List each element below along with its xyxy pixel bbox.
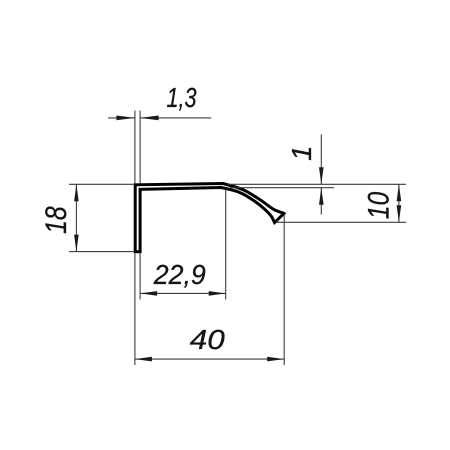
- extension line right: [283, 215, 285, 365]
- svg-text:10: 10: [363, 191, 396, 219]
- arrow pointing right: [116, 116, 134, 121]
- extension line right: [225, 189, 227, 300]
- arrow up: [74, 184, 79, 201]
- dimension 18 (leg height, left): [40, 184, 133, 251]
- arrow down: [397, 205, 402, 222]
- dimension line lower: [320, 188, 322, 215]
- extension line lower: [230, 187, 334, 189]
- extension line left: [139, 254, 141, 300]
- svg-text:22,9: 22,9: [153, 259, 206, 290]
- arrow up: [319, 188, 324, 205]
- extension line bottom: [276, 221, 406, 223]
- arrow left: [140, 291, 157, 296]
- dimension 40 (overall width, bottom): [135, 215, 284, 365]
- extension line left: [134, 111, 136, 184]
- extension line right: [139, 111, 141, 184]
- dimension line right tail: [140, 117, 211, 119]
- extension line left: [134, 254, 136, 366]
- arrow right: [209, 291, 226, 296]
- svg-text:40: 40: [190, 324, 226, 355]
- svg-text:1,3: 1,3: [167, 82, 198, 113]
- arrow down: [319, 167, 324, 184]
- dimension line: [140, 292, 226, 294]
- extension line upper (top surface, long shared): [228, 183, 406, 185]
- extension line bottom: [69, 251, 134, 253]
- dimension line left tail: [108, 117, 135, 119]
- profile outline: [135, 184, 284, 252]
- svg-text:18: 18: [40, 206, 73, 234]
- dimension line upper: [320, 134, 322, 184]
- dimension line: [135, 358, 284, 360]
- dimension 22,9 (horizontal, middle): [140, 189, 226, 300]
- arrow down: [74, 235, 79, 252]
- arrow pointing left: [140, 116, 159, 121]
- dimension 1 (lip thickness, right of curve): [228, 134, 406, 214]
- dimension 10 (drop height, right): [276, 184, 406, 222]
- arrow up: [397, 184, 402, 201]
- svg-text:1: 1: [286, 146, 317, 161]
- dimension line: [398, 184, 400, 222]
- arrow left: [135, 357, 152, 362]
- extension line top: [69, 183, 134, 185]
- arrow right: [267, 357, 284, 362]
- dimension 1,3 (leg thickness, top): [108, 82, 211, 184]
- dimension line: [75, 184, 77, 251]
